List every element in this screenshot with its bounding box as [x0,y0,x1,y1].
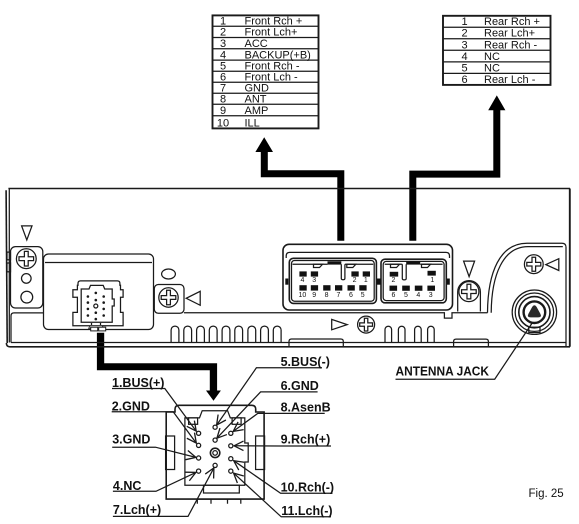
arrow from 6-pin connector to rear table [409,95,505,240]
pin 3 [197,456,201,460]
svg-text:9.Rch(+): 9.Rch(+) [281,433,331,447]
6-pin bottom row numbers [391,292,432,299]
wiring connector block housing [283,244,453,310]
svg-text:Rear Rch -: Rear Rch - [484,39,538,51]
marker triangle right of screw S5 [546,259,559,271]
connector bottom boot [89,325,104,328]
vent slots middle group [171,326,281,342]
row lines rear table [443,27,551,73]
screw S4 [459,282,479,302]
arrow from 13-pin connector to enlarged view [97,333,221,401]
leader 9.Rch(+) [234,445,331,447]
6-pin top row pins [390,271,436,277]
svg-text:Rear Lch -: Rear Lch - [484,74,536,86]
svg-text:3: 3 [312,277,316,284]
svg-text:4: 4 [300,277,304,284]
cable clamp tabs [91,327,98,331]
pin 1 [197,431,201,435]
pin 8 [229,431,233,435]
bottom ledge left [289,339,343,347]
svg-text:6: 6 [349,292,353,299]
svg-text:2.GND: 2.GND [112,399,150,413]
svg-text:Fig. 25: Fig. 25 [529,488,564,500]
svg-text:2: 2 [353,277,357,284]
cable exit ticks [197,499,241,504]
leader 1.BUS(+) [112,389,196,432]
right quarter-round panel edge [488,243,567,347]
svg-text:4.NC: 4.NC [113,479,141,493]
pin 4 [197,469,201,473]
svg-text:ANTENNA JACK: ANTENNA JACK [396,365,490,379]
rear speaker pin table (6-pin) [443,16,551,86]
shelf line under connector block [184,313,488,318]
pin 7 [213,463,217,467]
svg-text:NC: NC [484,51,500,63]
screw pad [154,285,184,314]
pin labels with leader lines [112,368,333,517]
svg-text:10.Rch(-): 10.Rch(-) [281,481,334,495]
bottom edge [6,343,570,347]
screw S1 [16,249,36,269]
leader 5.BUS(-) [217,368,322,425]
pin 2 [197,443,201,447]
svg-text:3: 3 [429,292,433,299]
lower-left tray edge [11,313,44,343]
connector body [73,281,123,326]
front speaker/power pin table (10-pin) [213,15,319,129]
leader 10.Rch(-) [234,461,333,494]
pin 6 [213,438,217,442]
10-pin bottom row pins [299,285,366,290]
svg-text:ANT: ANT [245,93,267,105]
6-pin guide left [391,264,400,267]
pin 11 [229,469,233,473]
10-pin connector housing [289,258,376,303]
svg-text:4: 4 [220,49,226,61]
marker triangle above screw S4 [464,261,475,277]
pins right column [102,295,105,317]
arrow from 10-pin connector to front table [255,137,344,241]
svg-text:5: 5 [361,292,365,299]
pin label texts [112,355,334,518]
svg-text:6.GND: 6.GND [281,379,319,393]
right wing [256,436,265,470]
svg-text:3: 3 [461,39,467,51]
10-pin top row numbers [300,277,367,284]
left edge notch ticks [7,252,11,260]
bottom tab [204,485,240,493]
6-pin top row numbers [391,277,434,284]
screw bracket top-left [11,247,43,308]
6-pin bottom row pins [390,286,436,291]
svg-text:BACKUP(+B): BACKUP(+B) [245,49,311,61]
10-pin guide right [347,264,356,267]
bracket hole large [21,291,33,303]
pin 10 [229,457,233,461]
svg-text:1.BUS(+): 1.BUS(+) [112,376,164,390]
svg-text:Front Rch +: Front Rch + [245,16,303,28]
left recessed panel [44,254,154,330]
rear table pin numbers [461,16,467,86]
marker triangle top-left [22,226,32,240]
enlarged 13-pin connector face view [166,405,265,504]
head unit chassis outline [6,189,570,347]
leader 8.AsenB [233,413,325,431]
top edge [8,188,570,190]
screw S5 [524,255,543,274]
front table signal names [245,16,311,130]
vent slots right group [385,326,434,342]
svg-text:7.Lch(+): 7.Lch(+) [113,503,161,517]
10-pin key channel [341,264,345,280]
10-pin top row pins [299,271,370,276]
10-pin top wall line [293,263,374,265]
pin 5 [213,425,217,429]
marker triangle pointing right [332,319,348,329]
svg-text:5.BUS(-): 5.BUS(-) [281,355,330,369]
leader 11.Lch(-) [234,473,331,517]
svg-text:9: 9 [220,105,226,117]
pin 9 [229,444,233,448]
rear table signal names [484,16,540,86]
svg-text:2: 2 [220,27,226,39]
svg-text:7: 7 [336,292,340,299]
inner face outline [185,411,248,486]
left inner edge [8,189,10,343]
6-pin top wall line [385,263,443,265]
svg-text:ILL: ILL [245,118,260,130]
svg-text:4: 4 [416,292,420,299]
leader 7.Lch(+) [113,468,214,517]
leader 6.GND [217,392,318,438]
leader 3.GND [112,447,196,457]
center ring pin [94,304,98,308]
left wing [166,436,175,470]
svg-text:9: 9 [312,292,316,299]
leader 4.NC [113,472,196,491]
antenna jack [512,290,556,334]
svg-text:1: 1 [364,277,368,284]
connector inner face [81,285,114,322]
svg-text:2: 2 [391,277,395,284]
bracket hole small [22,274,32,284]
oval hole [162,269,176,279]
6-pin guide right [422,264,431,267]
pins left column [87,295,90,317]
svg-text:11.Lch(-): 11.Lch(-) [281,504,332,518]
svg-text:10: 10 [299,292,307,299]
svg-text:2: 2 [461,28,467,40]
svg-text:1: 1 [430,277,434,284]
svg-text:5: 5 [404,292,408,299]
connector hinge ticks [92,323,101,325]
right quarter-round inner seam [491,247,563,313]
latch slot left [189,418,198,424]
svg-text:6: 6 [461,74,467,86]
svg-text:NC: NC [484,62,500,74]
screw S2 [159,288,178,307]
pins center column [95,292,98,321]
front table pin numbers [217,16,229,130]
screw S3 [358,316,375,333]
marker triangle right of screw S2 [186,291,200,305]
svg-text:1: 1 [461,16,467,28]
6-pin key channel [402,264,406,280]
row lines front table [213,26,319,115]
svg-text:5: 5 [461,62,467,74]
svg-text:Rear Rch +: Rear Rch + [484,16,540,28]
10-pin key bar [328,261,342,264]
svg-text:3.GND: 3.GND [112,433,150,447]
svg-text:Front Lch+: Front Lch+ [245,27,298,39]
svg-text:8: 8 [325,292,329,299]
leader 2.GND [112,412,197,443]
svg-text:8.AsenB: 8.AsenB [281,401,331,415]
svg-text:AMP: AMP [245,105,269,117]
svg-text:Rear Lch+: Rear Lch+ [484,28,535,40]
bottom ledge right [454,339,489,346]
connector body outline [166,405,264,499]
svg-text:8: 8 [220,93,226,105]
inner bottom seam line [11,342,566,344]
left panel seam [45,262,152,264]
svg-text:3: 3 [220,38,226,50]
svg-text:10: 10 [217,118,229,130]
svg-text:6: 6 [391,292,395,299]
6-pin connector housing [381,259,446,303]
housing latch tabs [285,279,288,285]
right edge [569,189,571,347]
antenna jack label [396,323,533,380]
left outer edge [6,190,7,343]
6-pin key bar [406,261,420,264]
10-pin guide left [314,264,323,267]
block lid seam [286,252,449,258]
screw S4 arch pad [458,281,481,312]
center ring pin 13 [210,448,219,457]
svg-text:4: 4 [461,51,467,63]
svg-text:ACC: ACC [245,38,268,50]
svg-text:1: 1 [220,16,226,28]
10-pin bottom row numbers [299,292,365,299]
13-pin changer connector (small, on unit) [73,281,123,331]
latch slot right [232,418,241,424]
